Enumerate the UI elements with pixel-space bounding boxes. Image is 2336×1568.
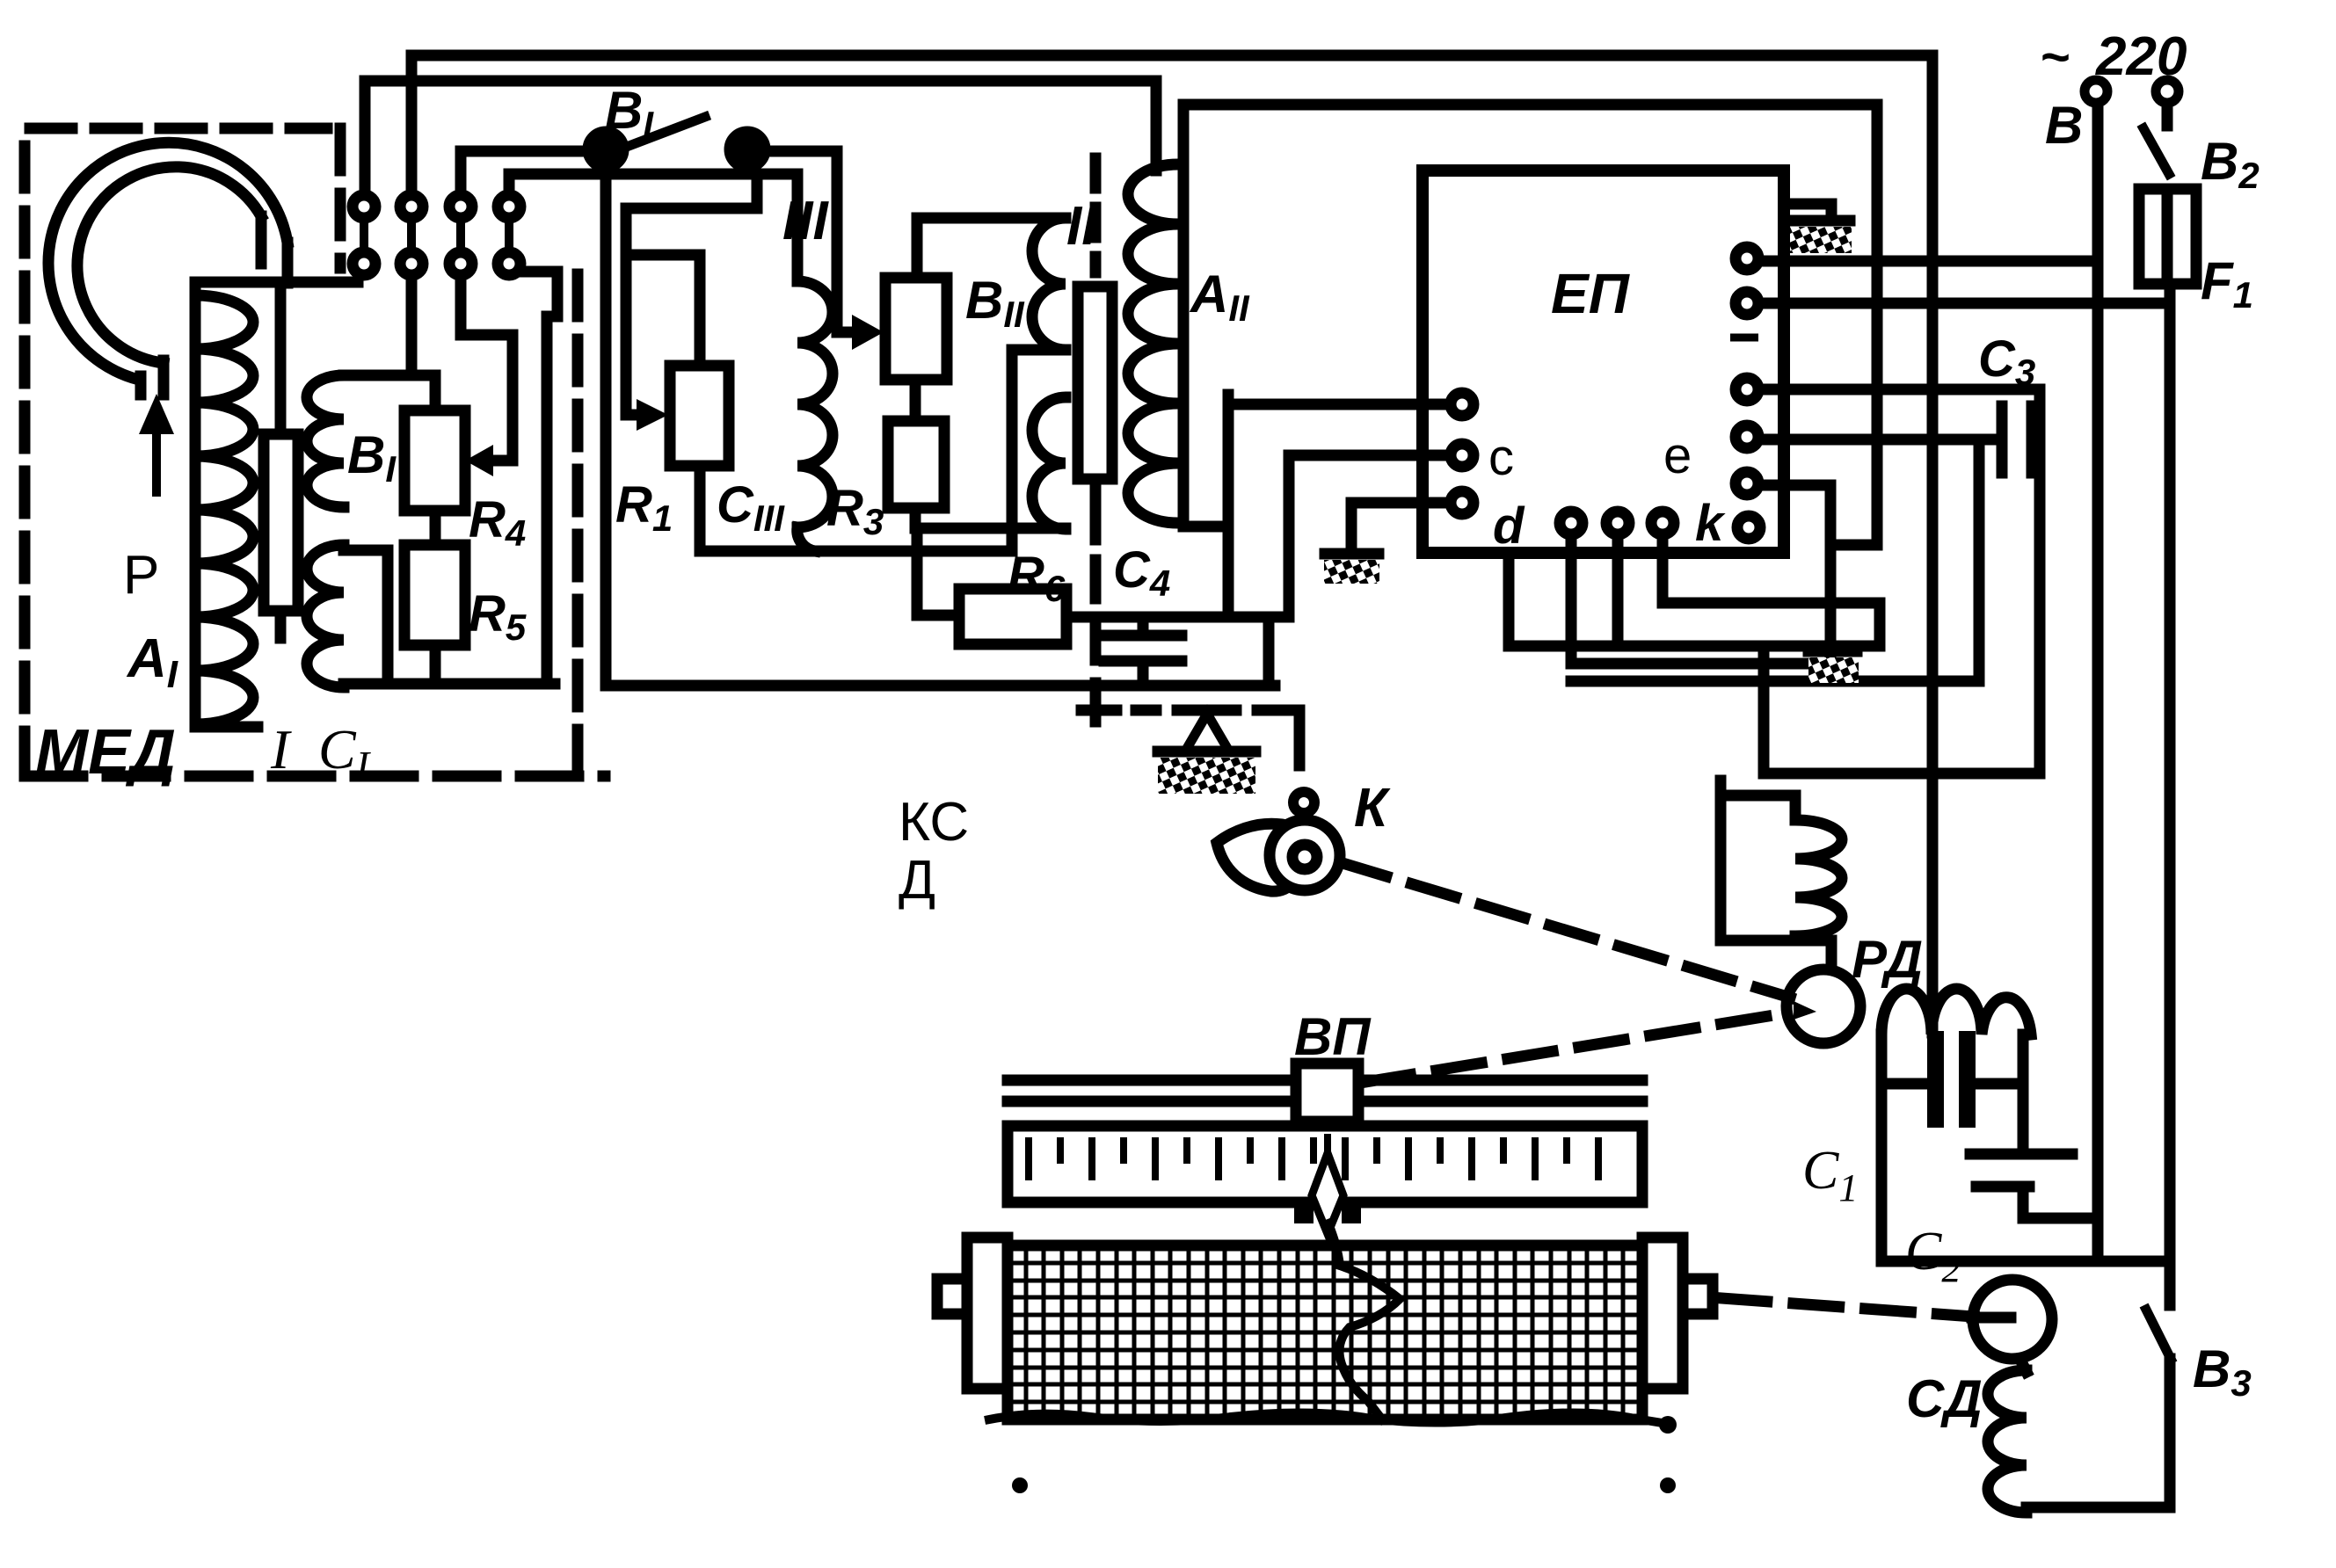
МЕД dashed enclosure bottom xyxy=(25,771,605,782)
arrowhead R3 wiper xyxy=(852,315,884,350)
inductor III xyxy=(797,281,833,527)
svg-text:е: е xyxy=(1663,427,1692,484)
wire top bus 1 xyxy=(411,55,1932,1033)
wire coil A_I bottom xyxy=(195,722,258,733)
wire EP terminal c1 horizontal xyxy=(1228,399,1451,410)
switch B_I pole 2 xyxy=(730,132,765,167)
wire bus down right xyxy=(1764,646,2040,773)
chart left stub xyxy=(937,1279,967,1314)
cam K lobe xyxy=(1217,824,1294,891)
wire loop inner stub xyxy=(256,216,267,264)
wire terminal 4 down lead xyxy=(519,272,557,684)
ruler body xyxy=(1008,1126,1642,1202)
ground G3 hatch xyxy=(1808,657,1859,683)
wire EP terminal c2 horizontal xyxy=(1289,450,1451,461)
wire RD winding right down xyxy=(2018,1034,2029,1151)
wire A_II node vertical xyxy=(1223,395,1234,617)
motor RD pointer xyxy=(1794,1001,1816,1020)
wire node row to coil A_I xyxy=(195,282,358,295)
slider bar upper rail xyxy=(1008,1075,1642,1086)
wire R3 bottom stub xyxy=(910,508,921,528)
EP minus mark xyxy=(1730,334,1758,342)
wire B_I tap xyxy=(344,550,388,684)
ground contact hatch xyxy=(1158,758,1255,794)
EP terminals right column xyxy=(1736,247,1760,539)
ground G1 bar xyxy=(1788,215,1850,227)
МЕД dashed enclosure right xyxy=(572,274,584,773)
wire coil A_I axis xyxy=(190,295,201,727)
svg-text:К: К xyxy=(1354,778,1391,838)
loop antenna P outer turn xyxy=(48,142,287,380)
wire SD winding top stub xyxy=(2020,1360,2027,1372)
capacitor plate C_I lead bottom xyxy=(275,611,287,638)
inductor II lower xyxy=(1032,397,1066,529)
terminal 220 left xyxy=(2085,80,2107,103)
arrow electrode P xyxy=(152,437,161,492)
КС block left edge xyxy=(600,167,612,686)
arrowhead R1 wiper xyxy=(637,399,668,431)
resistor R1 xyxy=(670,366,729,466)
wire R3 top to coil II xyxy=(917,218,1066,278)
inductor RD control xyxy=(1795,820,1842,936)
wire loop gap stub right xyxy=(158,360,170,395)
arrowhead electrode P xyxy=(139,394,174,434)
chart right cap xyxy=(1642,1238,1683,1389)
wire node to box bottom xyxy=(1263,617,1275,680)
pointer holder left xyxy=(1294,1202,1314,1223)
wire loop outer stub xyxy=(282,243,294,283)
wire jog to R1 wiper xyxy=(626,174,757,410)
wire top bus 2 xyxy=(365,81,1156,188)
svg-text:Р: Р xyxy=(123,545,159,606)
wire coil II bottom xyxy=(917,528,1066,615)
contact support base xyxy=(1158,746,1255,758)
inductor A_I xyxy=(195,295,253,724)
wire RD winding left down xyxy=(1876,1034,1888,1261)
pointer needle xyxy=(1324,1137,1331,1158)
wire EP e5 U-link xyxy=(1571,485,1830,664)
svg-text:МЕД: МЕД xyxy=(35,717,176,788)
screen stub xyxy=(1090,479,1102,540)
terminal row 2 xyxy=(353,252,520,275)
wire switch to R3 wiper xyxy=(747,151,850,332)
inductor A_II xyxy=(1128,164,1178,523)
wire EP e3 xyxy=(1764,389,2040,773)
chart wavy bottom xyxy=(989,1412,1668,1424)
cam K body xyxy=(1270,820,1340,890)
capacitor plate C_I lead top xyxy=(275,283,287,434)
pointer holder right xyxy=(1342,1202,1361,1223)
capacitor C3 right plate xyxy=(2027,406,2038,473)
svg-text:ВП: ВП xyxy=(1294,1007,1372,1066)
wire A_II bottom corner xyxy=(1183,521,1228,533)
capacitor C4 plate top xyxy=(1104,630,1182,642)
capacitor C1 right wire xyxy=(1974,1078,2023,1090)
МЕД dashed enclosure top xyxy=(25,128,327,773)
wire A_II top lead xyxy=(1183,105,1877,545)
dashed link chart to SD xyxy=(1721,1298,1974,1317)
chart grid xyxy=(1008,1245,1642,1419)
wire R3 link xyxy=(910,380,921,421)
capacitor C2 bottom plate xyxy=(1976,1181,2029,1193)
wire F1 lead down xyxy=(2165,284,2176,1305)
resistor R4 xyxy=(404,410,465,511)
wire EP terminal c2 vertical xyxy=(1284,455,1295,617)
svg-text:ІІ: ІІ xyxy=(1066,196,1098,257)
wire coil II tap xyxy=(1012,350,1066,551)
wire R6 right lead xyxy=(1066,612,1289,623)
capacitor plate C_I xyxy=(264,434,298,611)
ground G2 hatch xyxy=(1324,560,1379,584)
registration dot left xyxy=(1012,1477,1028,1493)
КС block bottom edge xyxy=(606,680,1275,692)
slider bar lower rail xyxy=(1008,1096,1642,1107)
wire terminal to B_I hook xyxy=(406,282,418,375)
wire to cam xyxy=(1257,710,1299,766)
wire R1 top lead xyxy=(626,255,700,366)
chart left cap xyxy=(967,1238,1008,1389)
ground G2 under c terminals xyxy=(1325,548,1379,560)
svg-text:І: І xyxy=(270,718,292,780)
ticks xyxy=(1029,1137,1598,1180)
block EP enclosure xyxy=(1423,171,1784,553)
wire EP terminal c3 to ground xyxy=(1351,503,1451,548)
capacitor C1 left wire xyxy=(1881,1078,1929,1090)
wire B lead xyxy=(2092,106,2104,1261)
svg-text:с: с xyxy=(1488,429,1514,486)
svg-text:220: 220 xyxy=(2095,26,2187,87)
recorded curve xyxy=(1328,1223,1400,1419)
contact support legs xyxy=(1189,714,1226,745)
ground G3 bar xyxy=(1808,646,1857,657)
svg-text:РД: РД xyxy=(1852,930,1923,989)
svg-text:~: ~ xyxy=(2040,29,2070,86)
svg-text:СД: СД xyxy=(1906,1369,1983,1428)
svg-text:d: d xyxy=(1493,497,1525,555)
wire coil III top lead xyxy=(792,174,804,281)
wire R4 wiper xyxy=(461,282,513,461)
capacitor C4 plate bottom xyxy=(1104,656,1182,667)
cam K top roller xyxy=(1293,792,1314,813)
wire loop gap stub left xyxy=(135,376,147,395)
wire EP e1 to B lead xyxy=(1764,256,2098,267)
chart right stub xyxy=(1683,1279,1713,1314)
contact support top bar xyxy=(1177,705,1236,716)
svg-text:ІІІ: ІІІ xyxy=(782,191,829,251)
arrowhead R4 wiper xyxy=(465,445,493,476)
motor SD shaft line xyxy=(1972,1312,2011,1324)
contact support dashes left xyxy=(1081,705,1156,716)
capacitor C1 right plate xyxy=(1961,1033,1974,1126)
screen plate xyxy=(1078,287,1112,479)
wire R4-R5 link xyxy=(430,511,441,545)
wire filament bus xyxy=(1509,553,1880,646)
chart paper frame xyxy=(1008,1245,1642,1419)
wire R1 bottom to coil III bottom xyxy=(700,466,1012,551)
inductor RD winding xyxy=(1881,989,2031,1034)
wire EP e2 to F1 lead xyxy=(1764,298,2170,309)
wire C2 bottom stub xyxy=(2023,1187,2098,1218)
wire bus to R1 and coil III xyxy=(509,174,797,188)
wire coil III bottom hook xyxy=(797,527,815,551)
resistor R3 lower xyxy=(888,421,944,508)
wire terminal links xyxy=(364,223,509,247)
loop antenna P inner turn xyxy=(77,167,261,363)
dashed link cam to RD xyxy=(1343,863,1790,998)
slider VP block xyxy=(1296,1063,1358,1122)
capacitor C1 left plate xyxy=(1929,1033,1942,1126)
МЕД dashed enclosure notch xyxy=(335,128,346,268)
EP terminals bottom row xyxy=(1560,512,1674,534)
wire R5 bottom lead xyxy=(430,645,441,684)
svg-text:КС: КС xyxy=(899,792,969,853)
inductor II upper xyxy=(1032,218,1066,350)
wire B_I bottom xyxy=(344,679,555,690)
switch B_I blade xyxy=(606,117,705,155)
svg-text:k: k xyxy=(1695,495,1726,552)
dashed link VP to RD xyxy=(1365,1013,1790,1082)
svg-text:Д: Д xyxy=(899,850,935,911)
wire to switch B_I xyxy=(461,151,587,188)
motor SD circle xyxy=(1973,1280,2052,1359)
wire EP bottom t2 stub xyxy=(1612,541,1624,646)
wire EP e4 to C3 xyxy=(1764,434,2002,446)
screen dashes below xyxy=(1090,560,1102,731)
resistor R5 xyxy=(404,545,465,645)
switch B3 blade xyxy=(2146,1310,2171,1359)
resistor R6 xyxy=(959,589,1066,644)
wire EP e4 net down xyxy=(1571,444,1979,681)
inductor SD winding xyxy=(1988,1370,2027,1513)
switch B2 blade xyxy=(2143,128,2169,174)
inductor B_I upper xyxy=(307,375,344,507)
wire k-row corner xyxy=(1830,603,1880,646)
screen dashes above xyxy=(1090,158,1102,272)
wire C3 right corner xyxy=(2032,461,2040,473)
inductor B_I lower xyxy=(307,545,344,687)
capacitor C2 top plate xyxy=(1970,1149,2072,1160)
capacitor C4 bottom lead xyxy=(1138,666,1149,686)
capacitor C4 top lead xyxy=(1138,617,1149,630)
fuse F1 xyxy=(2139,189,2196,284)
svg-text:ЕП: ЕП xyxy=(1551,262,1631,325)
ground G1 hatch xyxy=(1790,227,1852,253)
capacitor C3 left plate xyxy=(1997,406,2008,473)
wire R4 top lead xyxy=(430,375,441,410)
resistor R3 upper xyxy=(885,278,947,380)
svg-text:В: В xyxy=(2045,96,2083,155)
chart bottom dot xyxy=(1659,1416,1677,1434)
wire to RD coil xyxy=(1721,780,1831,971)
wire box bottom xyxy=(1881,1256,2170,1267)
wire B_I top hook xyxy=(344,370,435,381)
cam K hub xyxy=(1292,845,1317,869)
terminal row 1 xyxy=(353,195,520,218)
ruler tick marks xyxy=(1029,1137,1598,1180)
wire RD coil top jog xyxy=(1721,795,1795,820)
wire B3 to SD winding xyxy=(2027,1359,2170,1507)
motor RD circle xyxy=(1787,969,1860,1043)
wire R1 wiper shaft xyxy=(626,410,637,421)
pointer diamond xyxy=(1312,1153,1343,1234)
wire B2 stub xyxy=(2162,106,2173,126)
registration dot right xyxy=(1660,1477,1676,1493)
fuse F1 wire through xyxy=(2162,189,2173,284)
EP terminals left column xyxy=(1451,393,1474,514)
wire EP ground stub top right xyxy=(1784,204,1831,216)
switch B_I pole 1 xyxy=(588,132,623,167)
terminal 220 right xyxy=(2156,80,2179,103)
wire EP k-row link xyxy=(1663,541,1830,603)
